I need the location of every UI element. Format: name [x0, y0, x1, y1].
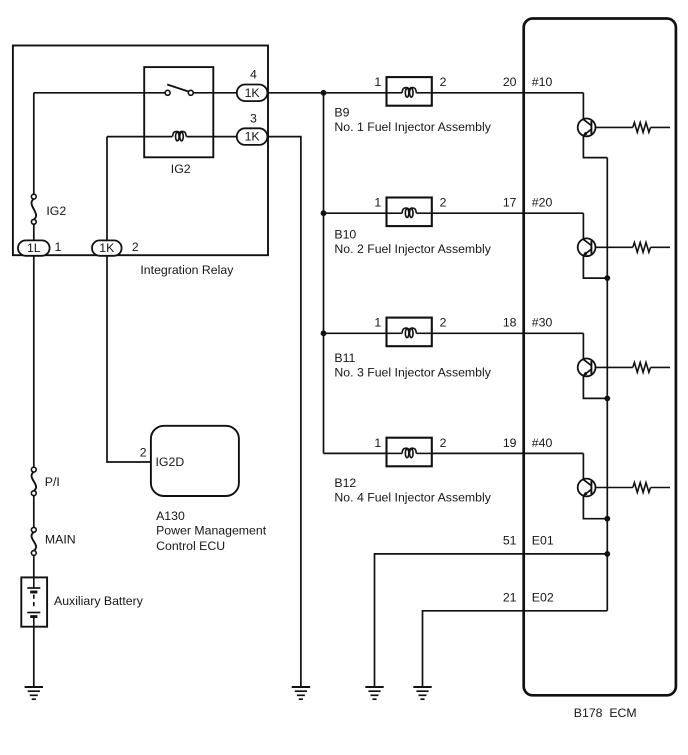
- wire through injector B10: [387, 212, 432, 214]
- wire: pin 1K(4) to injector rail: [267, 92, 386, 94]
- svg-text:No. 2 Fuel Injector Assembly: No. 2 Fuel Injector Assembly: [334, 242, 491, 256]
- pin number 2 (B12): [440, 436, 447, 450]
- svg-text:B11: B11: [334, 351, 355, 365]
- svg-text:P/I: P/I: [45, 475, 60, 489]
- wire: relay switch row left segment: [34, 92, 165, 94]
- relay IG2 coil: [173, 131, 187, 140]
- net label #40: [532, 436, 553, 450]
- svg-text:1L: 1L: [27, 241, 41, 255]
- resistor R2: [596, 242, 671, 252]
- label No. 1 Fuel Injector Assembly: [334, 120, 491, 134]
- transistor Q4: [578, 479, 596, 497]
- injector B11 coil: [402, 328, 416, 337]
- resistor R3: [596, 363, 671, 373]
- connector pin 1K (2): [92, 240, 122, 255]
- battery Auxiliary Battery: [21, 577, 47, 626]
- transistor Q2: [578, 238, 596, 256]
- pin number 1 (B10): [374, 196, 381, 210]
- injector B9 coil: [402, 88, 416, 97]
- svg-text:B9: B9: [334, 105, 349, 119]
- pin number 2 (B11): [440, 316, 447, 330]
- svg-text:1K: 1K: [245, 86, 261, 100]
- svg-text:20: 20: [503, 75, 517, 89]
- svg-text:2: 2: [440, 436, 447, 450]
- wire: rail to injector B12: [324, 452, 387, 454]
- svg-text:Power Management: Power Management: [156, 524, 267, 538]
- pin number 19 (ECM): [503, 436, 517, 450]
- label B178 ECM: [574, 706, 637, 720]
- ground G1 (battery): [25, 687, 43, 699]
- ground G4 (E02): [413, 687, 431, 699]
- svg-text:E01: E01: [532, 533, 554, 547]
- svg-text:19: 19: [503, 436, 517, 450]
- svg-text:1: 1: [374, 196, 381, 210]
- injector B10 coil: [402, 208, 416, 217]
- injector B10 box: [387, 198, 432, 227]
- wire: injector B11 to ECM: [432, 332, 584, 334]
- wire: #20 turn down to transistor Q2: [582, 213, 584, 239]
- svg-text:#20: #20: [532, 196, 553, 210]
- net label #10: [532, 75, 553, 89]
- pin number 2 (B10): [440, 196, 447, 210]
- injector B11 box: [387, 318, 432, 347]
- wire: Q1 emitter to rail: [583, 136, 607, 158]
- net label E01: [532, 533, 554, 547]
- wire: injector B12 to ECM: [432, 452, 584, 454]
- svg-text:Control ECU: Control ECU: [156, 539, 225, 553]
- wire: #40 turn down to transistor Q4: [582, 453, 584, 479]
- wire: coil row down to pin 1K(2): [106, 137, 108, 248]
- svg-text:2: 2: [440, 316, 447, 330]
- svg-text:A130: A130: [156, 509, 185, 523]
- pin number 2 (1K): [132, 240, 139, 254]
- pin number 1 (B9): [374, 75, 381, 89]
- pin number 21 (ECM): [503, 590, 517, 604]
- svg-text:#30: #30: [532, 316, 553, 330]
- wire: injector B10 to ECM: [432, 212, 584, 214]
- pin number 3: [250, 111, 257, 125]
- wire: Q4 emitter to rail: [583, 496, 607, 519]
- junction rail E01: [604, 551, 610, 557]
- svg-text:51: 51: [503, 533, 517, 547]
- wire through injector B12: [387, 452, 432, 454]
- junction rail Q3: [604, 396, 610, 402]
- wire: 1L down to fuse P/I: [33, 256, 35, 467]
- junction rail row 2: [321, 210, 327, 216]
- pin number 51 (ECM): [503, 533, 517, 547]
- ground G2: [292, 687, 310, 699]
- fusible link MAIN: [31, 527, 36, 555]
- svg-text:1: 1: [374, 316, 381, 330]
- wire: battery to ground: [33, 627, 35, 687]
- pin number 1 (1L): [55, 240, 62, 254]
- svg-text:No. 4 Fuel Injector Assembly: No. 4 Fuel Injector Assembly: [334, 491, 491, 505]
- label Power Management: [156, 524, 267, 538]
- svg-text:21: 21: [503, 590, 517, 604]
- wire: coil row horizontal: [107, 136, 237, 138]
- junction rail Q2: [604, 275, 610, 281]
- ECU A130 box: [151, 426, 239, 496]
- svg-text:4: 4: [250, 68, 257, 82]
- label B11: [334, 351, 355, 365]
- wire: #10 turn down to transistor Q1: [582, 93, 584, 119]
- label No. 3 Fuel Injector Assembly: [334, 366, 491, 380]
- fuse IG2: [31, 194, 36, 224]
- wire: switch to pin 1K(4): [193, 92, 237, 94]
- wire: fuse IG2 to pin 1L: [33, 224, 35, 248]
- resistor R4: [596, 483, 671, 493]
- net label #20: [532, 196, 553, 210]
- wire: rail to injector B10: [324, 212, 387, 214]
- wire: ECM internal ground rail: [606, 158, 608, 611]
- junction rail row 3: [321, 330, 327, 336]
- label Control ECU: [156, 539, 225, 553]
- wire: injector feed vertical rail: [323, 93, 325, 454]
- relay IG2 switch contact: [165, 85, 193, 96]
- wire: Q3 emitter to rail: [583, 376, 607, 399]
- injector B9 box: [387, 77, 432, 106]
- transistor Q3: [578, 359, 596, 377]
- svg-text:#40: #40: [532, 436, 553, 450]
- svg-text:IG2D: IG2D: [156, 455, 185, 469]
- label IG2D: [156, 455, 185, 469]
- label Integration Relay: [140, 263, 234, 277]
- pin number 18 (ECM): [503, 316, 517, 330]
- svg-text:IG2: IG2: [46, 204, 66, 218]
- svg-text:1: 1: [374, 75, 381, 89]
- ECM B178 box: [524, 19, 676, 696]
- connector pin 1K (4): [237, 85, 268, 102]
- svg-text:Auxiliary Battery: Auxiliary Battery: [54, 594, 144, 608]
- label IG2 (relay): [171, 162, 191, 176]
- svg-text:18: 18: [503, 316, 517, 330]
- wire through injector B9: [387, 92, 432, 94]
- wire: switch row down to fuse IG2: [33, 93, 35, 194]
- connector pin 1L (1): [18, 240, 50, 255]
- label No. 2 Fuel Injector Assembly: [334, 242, 491, 256]
- resistor R1: [596, 123, 671, 133]
- wire: P/I to MAIN: [33, 496, 35, 528]
- fusible link P/I: [31, 467, 36, 495]
- wire: E01 to ground: [375, 554, 608, 687]
- pin number 1 (B11): [374, 316, 381, 330]
- wire: #30 turn down to transistor Q3: [582, 333, 584, 359]
- connector pin 1K (3): [237, 128, 268, 145]
- svg-text:#10: #10: [532, 75, 553, 89]
- svg-text:B10: B10: [334, 228, 356, 242]
- ground G3 (E01): [365, 687, 383, 699]
- svg-text:1K: 1K: [245, 130, 261, 144]
- net label E02: [532, 590, 554, 604]
- wire: rail to injector B11: [324, 332, 387, 334]
- svg-text:2: 2: [440, 196, 447, 210]
- svg-text:2: 2: [440, 75, 447, 89]
- svg-text:Integration Relay: Integration Relay: [140, 263, 234, 277]
- svg-text:B178 ECM: B178 ECM: [574, 706, 637, 720]
- label B9: [334, 105, 349, 119]
- svg-text:MAIN: MAIN: [45, 533, 76, 547]
- svg-text:3: 3: [250, 111, 257, 125]
- net label #30: [532, 316, 553, 330]
- svg-text:B12: B12: [334, 476, 356, 490]
- junction rail Q4: [604, 516, 610, 522]
- label MAIN: [45, 533, 76, 547]
- label Auxiliary Battery: [54, 594, 144, 608]
- pin number 2 (B9): [440, 75, 447, 89]
- svg-text:17: 17: [503, 196, 517, 210]
- integration relay box: [13, 46, 268, 256]
- relay IG2 box: [144, 67, 213, 157]
- svg-text:IG2: IG2: [171, 162, 191, 176]
- wire through injector B11: [387, 332, 432, 334]
- label P/I: [45, 475, 60, 489]
- svg-text:E02: E02: [532, 590, 554, 604]
- junction at rail top: [321, 90, 327, 96]
- pin number 2 (A130): [140, 446, 147, 460]
- pin number 20 (ECM): [503, 75, 517, 89]
- wire: 1K(2) down and right to A130 pin 2: [107, 256, 151, 462]
- svg-text:1: 1: [374, 436, 381, 450]
- label No. 4 Fuel Injector Assembly: [334, 491, 491, 505]
- label IG2 (fuse): [46, 204, 66, 218]
- injector B12 coil: [402, 448, 416, 457]
- label A130: [156, 509, 185, 523]
- svg-text:2: 2: [132, 240, 139, 254]
- wire: MAIN to battery: [33, 555, 35, 578]
- label B12: [334, 476, 356, 490]
- svg-text:2: 2: [140, 446, 147, 460]
- wire: pin 1K(3) right and down to ground: [267, 137, 301, 687]
- wire: Q2 emitter to rail: [583, 256, 607, 279]
- pin number 17 (ECM): [503, 196, 517, 210]
- injector B12 box: [387, 438, 432, 467]
- svg-text:No. 1 Fuel Injector Assembly: No. 1 Fuel Injector Assembly: [334, 120, 491, 134]
- pin number 4: [250, 68, 257, 82]
- wire: injector B9 to ECM: [432, 92, 584, 94]
- svg-text:No. 3 Fuel Injector Assembly: No. 3 Fuel Injector Assembly: [334, 366, 491, 380]
- wire: E02 to ground: [423, 611, 608, 687]
- label B10: [334, 228, 356, 242]
- svg-text:1: 1: [55, 240, 62, 254]
- transistor Q1: [578, 119, 596, 137]
- svg-text:1K: 1K: [99, 241, 115, 255]
- pin number 1 (B12): [374, 436, 381, 450]
